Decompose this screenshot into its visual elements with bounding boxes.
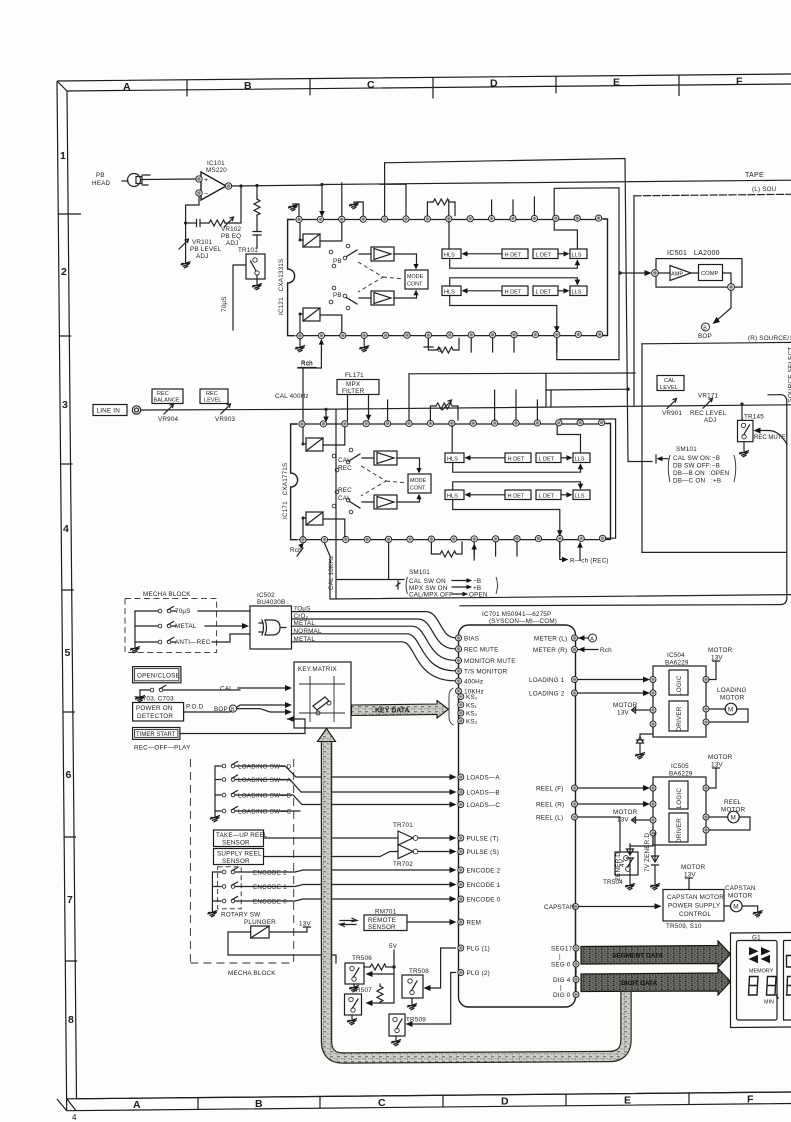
svg-text:−: − [204, 191, 208, 198]
SM101 right note [656, 446, 736, 485]
vertical shaded band to key matrix [318, 729, 627, 1059]
svg-text:CAL 400Hz: CAL 400Hz [275, 393, 309, 400]
svg-text:REC: REC [157, 391, 169, 397]
MECHA BLOCK dashed box [125, 598, 217, 652]
mid horizontal y389 [546, 388, 629, 391]
IC502 box [250, 606, 292, 649]
svg-text:PULSE (T): PULSE (T) [467, 836, 499, 843]
arrow LDET to LLS Lch [558, 253, 566, 255]
IC502 output wires [292, 612, 455, 681]
IC501 body [656, 259, 742, 288]
wires crossed boxes IC121 [320, 223, 371, 333]
svg-text:REEL: REEL [724, 799, 742, 806]
svg-text:REEL (L): REEL (L) [536, 815, 563, 822]
svg-text:CAL: CAL [664, 378, 676, 384]
IC504 label [665, 652, 689, 667]
svg-text:ADJ: ADJ [196, 253, 209, 260]
resistor on output branch [253, 184, 261, 248]
partial digit panel2 [787, 977, 791, 996]
svg-text:LLS: LLS [572, 290, 582, 296]
mid horizontal y373 [409, 373, 635, 421]
svg-text:VR171: VR171 [698, 393, 719, 400]
svg-text:B: B [703, 325, 707, 331]
svg-text:METAL: METAL [294, 636, 316, 643]
ground open/close [135, 696, 145, 703]
wire op-amp output [232, 185, 322, 211]
L DET box Lch [533, 249, 558, 259]
switch contacts IC171 top [332, 448, 360, 472]
svg-text:LOADS—A: LOADS—A [467, 775, 501, 782]
svg-text:TR508: TR508 [409, 968, 429, 975]
svg-text:SENSOR: SENSOR [222, 858, 250, 865]
seven segment digit 1 [749, 977, 759, 996]
IC121 body [288, 219, 608, 336]
svg-text:TAKE—UP REEL: TAKE—UP REEL [216, 832, 268, 839]
KEY DATA arrow [352, 701, 449, 719]
mecha switch 70uS [135, 607, 191, 616]
svg-text:REMOTE: REMOTE [368, 917, 396, 924]
svg-text:REC LEVEL: REC LEVEL [690, 410, 727, 417]
svg-text:MIN: MIN [764, 1000, 774, 1006]
MPX FILTER box [337, 380, 379, 395]
zener diode 1 [627, 844, 634, 884]
svg-text:VR901: VR901 [662, 410, 683, 417]
svg-text:REC: REC [338, 465, 352, 472]
CAL wire arrow [238, 687, 287, 689]
IC701 left pins group1 [456, 635, 462, 694]
amp triangle box Rch [371, 291, 394, 305]
mode cont arrows IC171 [397, 458, 420, 502]
PLG labels [467, 946, 490, 978]
ground below pin1 [299, 339, 301, 346]
BOP label + circle [214, 705, 292, 715]
svg-text:C: C [378, 1097, 386, 1109]
svg-text:P.O.D: P.O.D [186, 704, 204, 711]
svg-text:F: F [747, 1094, 754, 1106]
svg-text:CAL: CAL [220, 686, 233, 693]
svg-text:VR101: VR101 [192, 239, 213, 246]
HLS box Lch [442, 249, 461, 259]
svg-text:ENCODE 2: ENCODE 2 [253, 870, 287, 877]
svg-text:LEVEL: LEVEL [660, 385, 679, 391]
svg-text:13V: 13V [617, 817, 629, 824]
IC171 body [291, 424, 611, 540]
TR145 switch box [738, 420, 754, 451]
POWER ON DETECTOR box [133, 703, 184, 722]
SUPPLY REEL SENSOR box [214, 849, 264, 865]
svg-text:TAPE: TAPE [745, 172, 764, 179]
COMP box [699, 265, 723, 281]
loading motor [709, 703, 748, 722]
svg-text:SENSOR: SENSOR [368, 924, 396, 931]
svg-text:7V ZENER.D: 7V ZENER.D [644, 833, 651, 872]
IC701 body [459, 625, 576, 1007]
CAL REC labels top [338, 457, 352, 472]
svg-text:MECHA BLOCK: MECHA BLOCK [143, 591, 191, 598]
wire IC171 pin15 loop [560, 419, 616, 538]
svg-text:IC504: IC504 [667, 652, 685, 659]
REEL wires to IC505 [578, 785, 651, 807]
svg-text:LOGIC: LOGIC [676, 788, 683, 809]
svg-text:(SYSCON—MI—COM): (SYSCON—MI—COM) [489, 618, 557, 625]
svg-text:HEAD: HEAD [92, 180, 111, 187]
IC501 input wire [620, 272, 647, 274]
svg-text:|: | [560, 985, 562, 992]
resistor above IC171 pins [430, 400, 458, 420]
svg-text:LOADING SW—A: LOADING SW—A [238, 777, 292, 784]
svg-text:MECHA BLOCK: MECHA BLOCK [228, 970, 276, 977]
arrow down into IC171 pin15 [325, 409, 327, 417]
wires crossed boxes IC171 [323, 427, 374, 537]
IC502 label [257, 592, 285, 606]
REEL L wire [578, 817, 621, 852]
mode cont dashes IC171 [361, 466, 407, 496]
HLS box Rch [442, 286, 461, 296]
svg-text:DIGIT DATA: DIGIT DATA [621, 980, 658, 987]
svg-text:H DET: H DET [508, 494, 525, 500]
display panel 2 partial [784, 940, 791, 1020]
L SOURCE left edge down [633, 196, 635, 405]
svg-text:SEG 0: SEG 0 [551, 962, 571, 969]
VR101 [179, 223, 189, 262]
svg-text:8: 8 [68, 1014, 74, 1026]
svg-text:REC: REC [206, 391, 218, 397]
svg-text:E: E [624, 1095, 631, 1107]
svg-text:M: M [731, 815, 736, 822]
svg-text:PLG (2): PLG (2) [467, 970, 490, 977]
svg-text:LINE IN: LINE IN [97, 408, 121, 415]
svg-text:AMP: AMP [671, 272, 683, 278]
svg-text:BOP: BOP [698, 333, 712, 340]
SEG DIG pins [573, 945, 579, 998]
grid numbers left [60, 150, 74, 1026]
row ticks left [58, 214, 81, 961]
svg-text:CAL SW ON:−B: CAL SW ON:−B [673, 455, 720, 462]
arrow LDET to LLS IC171 bottom [561, 494, 569, 496]
circle A [578, 634, 597, 642]
ground [288, 205, 298, 212]
svg-text:ENCODE 1: ENCODE 1 [467, 882, 501, 889]
svg-text:PLUNGER: PLUNGER [244, 919, 276, 926]
grid letters bottom [133, 1094, 754, 1112]
svg-text:VR102: VR102 [221, 226, 242, 233]
ENCODE pin labels [467, 868, 501, 904]
arrow HDET to HLS IC171 top [468, 457, 505, 459]
HLS box IC171 top [445, 453, 464, 463]
svg-text:PB LEVEL: PB LEVEL [190, 246, 222, 253]
svg-text:DIG 0: DIG 0 [553, 992, 571, 999]
svg-text:PB: PB [333, 292, 342, 299]
vertical to SM101 note [388, 542, 390, 579]
svg-text:DETECTOR: DETECTOR [137, 713, 173, 720]
long line y597 [324, 409, 791, 599]
LOADS labels [467, 775, 501, 810]
svg-text:6: 6 [66, 769, 72, 781]
svg-text:3: 3 [62, 399, 68, 411]
svg-text:FL171: FL171 [345, 372, 364, 379]
ground zener2 [650, 884, 660, 891]
svg-text:−B: −B [434, 347, 442, 354]
R SOURCE left edge [642, 344, 787, 553]
REM pin [458, 919, 464, 925]
svg-text:METAL: METAL [175, 623, 197, 630]
svg-text:POWER ON: POWER ON [136, 705, 173, 712]
mecha switch ANTI-REC [135, 638, 211, 647]
REEL labels [536, 786, 564, 822]
switch contacts Lch [329, 244, 357, 268]
svg-text:ADJ: ADJ [226, 240, 239, 247]
ground below pin4 [363, 338, 365, 346]
VR171 arrow on line [703, 398, 713, 408]
svg-text:REC MUTE: REC MUTE [464, 647, 498, 654]
mecha switch METAL [135, 622, 197, 631]
TR509 wire [410, 973, 456, 1025]
arrow LDET to LLS IC171 top [561, 457, 569, 459]
TR504 box [615, 852, 638, 875]
resistor below IC171 [431, 542, 462, 557]
svg-text:MODE: MODE [407, 274, 424, 280]
zener diode 2 [652, 833, 659, 884]
MOTOR 13V top IC505 [708, 754, 733, 788]
MOTOR 13V left IC504 [613, 702, 650, 717]
DRIVER box IC504 [669, 701, 688, 732]
svg-text:(L) SOU: (L) SOU [752, 186, 777, 193]
ground TR509 [391, 1040, 401, 1047]
arrow into pin15 IC121 [319, 211, 325, 217]
svg-text:LOGIC: LOGIC [676, 675, 683, 696]
LLS box Lch [570, 249, 587, 259]
IC501 pin6 [728, 284, 735, 291]
VR904 arrow [164, 404, 174, 414]
svg-text:METER (L): METER (L) [534, 636, 567, 643]
svg-text:VR904: VR904 [158, 416, 179, 423]
svg-text:METAL: METAL [294, 620, 316, 627]
TR509 box [389, 1014, 405, 1040]
IC504 pin4 zener [637, 727, 654, 753]
svg-text:SOURCE SELECT: SOURCE SELECT [788, 347, 791, 403]
pin stubs IC171 bottom [474, 542, 560, 557]
svg-text:DB SW OFF:−B: DB SW OFF:−B [673, 463, 720, 470]
MOTOR 13V top IC504 [708, 647, 733, 680]
svg-text:REC—OFF—PLAY: REC—OFF—PLAY [134, 745, 191, 752]
svg-text:KS₁: KS₁ [466, 702, 477, 709]
mode cont dashes [358, 262, 404, 292]
svg-text:PLG (1): PLG (1) [467, 946, 490, 953]
MODE CONT box IC171 [408, 474, 431, 493]
svg-text:M: M [728, 707, 733, 714]
svg-text:F: F [736, 76, 743, 88]
ground encode [207, 911, 217, 918]
internal wires HLS/LLS [449, 222, 580, 333]
encode switches [212, 867, 241, 911]
amp triangle box IC171 bottom [374, 495, 397, 509]
LLS box IC171 bottom [573, 490, 590, 500]
svg-text:HLS: HLS [444, 253, 455, 259]
ground stub above pin27 [354, 202, 363, 216]
svg-text:IC121 CXA1331S: IC121 CXA1331S [278, 259, 285, 315]
svg-text:BU4030B: BU4030B [257, 599, 285, 606]
Rch arrow below IC171 pin1 [290, 543, 304, 556]
svg-text:BIAS: BIAS [464, 636, 479, 643]
PULSE pins [458, 835, 464, 855]
wire feedback left drop [186, 196, 199, 223]
Rch arrow below pin2 [298, 339, 324, 368]
capstan motor [724, 900, 758, 912]
loading wires to pins [235, 766, 457, 811]
TR506 arrow [370, 967, 394, 974]
IC502 output labels [294, 606, 322, 643]
svg-text:TR145: TR145 [744, 414, 764, 421]
LLS box Rch [570, 286, 587, 296]
svg-text:MONITOR MUTE: MONITOR MUTE [464, 658, 516, 665]
wiring rect R1 top [385, 159, 652, 462]
svg-text:L DET: L DET [536, 290, 552, 296]
IC171 bottom pin row [300, 535, 606, 543]
svg-text:REC: REC [338, 487, 352, 494]
svg-text:PB EQ: PB EQ [221, 233, 241, 240]
svg-text:NORMAL: NORMAL [294, 628, 322, 635]
R-ch REC arrow [560, 542, 609, 565]
svg-text:SM101: SM101 [409, 569, 430, 576]
DRIVER box IC505 [669, 813, 688, 843]
FF REW symbols [749, 947, 771, 963]
ground [349, 203, 359, 210]
MODE CONT box IC121 [405, 270, 428, 289]
svg-text:H DET: H DET [505, 253, 522, 259]
svg-text:HLS: HLS [447, 494, 458, 500]
svg-text:R—ch (REC): R—ch (REC) [570, 558, 609, 565]
ground zener IC504 [635, 753, 645, 760]
L DET box IC171 bottom [536, 490, 561, 500]
pin labels group1 [464, 636, 516, 696]
ground TR506 [353, 984, 355, 986]
svg-text:DRIVER: DRIVER [676, 818, 683, 843]
IC701 label [482, 611, 557, 625]
svg-text:C: C [367, 79, 375, 91]
pin stubs IC121 bottom [471, 338, 557, 353]
svg-text:IC171 CXA1771S: IC171 CXA1771S [282, 463, 289, 519]
svg-text:CAPSTAN: CAPSTAN [725, 885, 756, 892]
svg-text:TR701: TR701 [393, 822, 413, 829]
svg-text:ZENER.D: ZENER.D [615, 852, 622, 881]
resistor below right [428, 338, 459, 353]
TR508 box [402, 975, 423, 1004]
svg-text:4: 4 [72, 1113, 77, 1122]
ground TR508 [407, 1004, 417, 1011]
svg-text:MOTOR: MOTOR [708, 754, 733, 761]
svg-text:CrO₂: CrO₂ [294, 613, 309, 620]
crossed amp box Rch [299, 308, 321, 333]
svg-text:IC101: IC101 [207, 160, 225, 167]
TR101 switch box [246, 254, 265, 284]
svg-text:KS₂: KS₂ [466, 711, 478, 718]
svg-text:(R) SOURCE/1C: (R) SOURCE/1C [748, 335, 791, 342]
svg-text:KEY DATA: KEY DATA [375, 708, 410, 715]
arrow HDET to HLS Lch [465, 253, 502, 255]
MOTOR 13V left IC505 [613, 809, 650, 824]
TR702 buffer [264, 845, 457, 859]
svg-text:CAPSTAN MOTOR: CAPSTAN MOTOR [667, 894, 724, 901]
svg-text:REEL (F): REEL (F) [536, 786, 564, 793]
seven segment digit 2 [767, 977, 779, 999]
svg-text:REM: REM [467, 920, 482, 927]
svg-text:E: E [613, 77, 620, 89]
LOADING wires to IC504 [578, 677, 651, 697]
svg-text:BALANCE: BALANCE [154, 398, 180, 404]
internal wires IC171 [452, 426, 583, 536]
BOP arrow wire [716, 290, 731, 321]
svg-text:H DET: H DET [505, 290, 522, 296]
G1 display outer box [731, 933, 791, 1028]
svg-text:POWER SUPPLY: POWER SUPPLY [668, 903, 721, 910]
capstan wire to box [579, 906, 657, 908]
TR145 wire from main line [741, 404, 743, 420]
feedback RC network [184, 184, 243, 227]
KS labels [466, 694, 478, 725]
LOADING labels [529, 677, 565, 698]
ground TR507 [347, 1019, 357, 1026]
wire 70uS into TR101 [233, 265, 246, 330]
svg-text:IC501 LA2000: IC501 LA2000 [667, 250, 720, 257]
ground [295, 346, 305, 353]
svg-text:TR506: TR506 [352, 955, 372, 962]
H DET box IC171 top [505, 453, 531, 463]
svg-text:LOADS—C: LOADS—C [467, 802, 501, 809]
svg-text:−B: −B [473, 578, 481, 585]
REC CAL labels bottom [338, 487, 352, 502]
TAPE line [322, 180, 791, 184]
amp triangle box IC171 top [374, 451, 397, 465]
column ticks top [187, 75, 679, 98]
svg-text:A: A [590, 636, 594, 642]
IC505 pins [650, 785, 709, 836]
vertical resistor TR507 [377, 984, 383, 1003]
PLG1 wire [441, 947, 456, 949]
svg-text:SENSOR: SENSOR [222, 840, 250, 847]
svg-text:LLS: LLS [575, 457, 585, 463]
svg-text:13V: 13V [617, 710, 629, 717]
ground zener1 [625, 884, 635, 891]
5V wire [393, 950, 395, 967]
svg-text:5: 5 [65, 647, 71, 659]
wires mecha to IC502 [198, 611, 250, 642]
switch contacts IC171 bottom [332, 490, 360, 514]
svg-text:CONT: CONT [407, 282, 423, 288]
op-amp IC101 [196, 172, 232, 200]
-B mark below pin7 [424, 338, 442, 354]
svg-text:MOTOR: MOTOR [708, 647, 733, 654]
svg-text:7: 7 [67, 894, 73, 906]
display panel 1 [737, 941, 778, 1021]
ground [359, 346, 369, 353]
LOADS pins [458, 774, 464, 808]
MPX filter wires to pins [348, 395, 369, 421]
wire capstan-seg vertical [575, 910, 578, 992]
big mecha dashed rect [190, 759, 293, 963]
svg-text:T/S MONITOR: T/S MONITOR [464, 669, 508, 676]
CAPSTAN pin [573, 904, 579, 910]
ground VR101 [181, 262, 191, 269]
svg-text:+: + [204, 177, 208, 184]
DIGIT DATA arrow [581, 969, 731, 996]
svg-text:BOP: BOP [214, 706, 228, 713]
IC121 top pin row [296, 215, 602, 223]
svg-text:L DET: L DET [539, 494, 555, 500]
open/close switch [140, 686, 240, 697]
HLS box IC171 bottom [445, 490, 464, 500]
VR901 arrow on line [667, 399, 677, 409]
H DET box Lch [502, 249, 528, 259]
